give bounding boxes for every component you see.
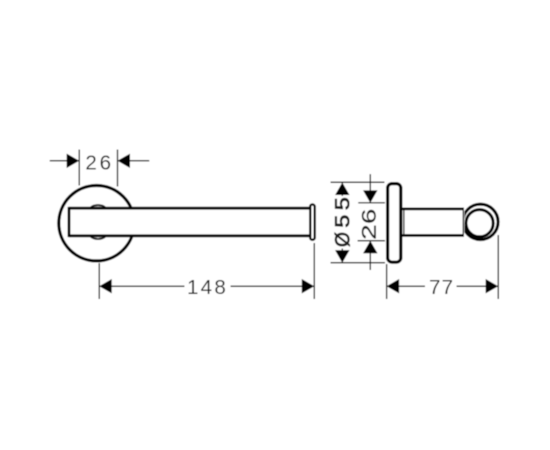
dim 77 line left segment — [387, 285, 425, 287]
dim 26 side label — [362, 210, 376, 239]
rod top line — [402, 208, 465, 211]
hook inner ring — [466, 210, 493, 237]
dim Ø55 bottom extension line — [331, 262, 386, 264]
dim 148 right extension line — [313, 243, 315, 299]
dim Ø55 top arrow — [335, 183, 349, 196]
rod fill — [403, 208, 465, 237]
dim Ø55 line upper segment — [341, 182, 343, 196]
dim 148 line right segment — [231, 285, 315, 287]
rosette circle (front view) — [59, 186, 134, 261]
svg-text:148: 148 — [187, 276, 228, 299]
dim 148 left extension line — [98, 263, 100, 299]
dim Ø55 label — [335, 198, 350, 246]
dim 26 side top arrow — [363, 190, 377, 203]
bar left end line — [68, 207, 71, 237]
dim Ø55 line lower segment — [341, 249, 343, 263]
dim 26 right tail — [118, 160, 150, 162]
rod joint line at ring — [462, 209, 464, 236]
bar end cap — [310, 204, 315, 239]
dim 26 side top tail — [369, 174, 371, 203]
hook outer ring — [463, 204, 498, 239]
dim 77 line right segment — [457, 285, 499, 287]
svg-text:77: 77 — [429, 276, 454, 299]
dim Ø55 top extension line — [331, 181, 385, 183]
dim 26 side bottom extension line — [358, 240, 385, 242]
side view plate — [388, 184, 401, 263]
bar top line — [69, 207, 310, 210]
bar bottom line — [69, 234, 310, 237]
hidden wall-post outline (gray, behind bar) — [90, 205, 106, 239]
bar body fill — [69, 207, 311, 237]
dim 77 left arrow — [387, 279, 400, 293]
dim 26 side top extension line — [358, 202, 385, 204]
rod joint line at plate — [403, 209, 405, 236]
dim 26 left arrow — [67, 154, 80, 168]
dim 148 right arrow — [302, 279, 315, 293]
dim 26 side bottom arrow — [363, 241, 377, 254]
dim 26 left extension line — [78, 150, 80, 186]
dim 77 left extension line — [386, 264, 388, 299]
dim 148 line left segment — [99, 285, 184, 287]
dim Ø55 bottom arrow — [335, 250, 349, 263]
dim 26 left tail — [50, 160, 79, 162]
dim 148 left arrow — [99, 279, 112, 293]
dim 77 right extension line — [497, 235, 499, 299]
dim 26 right extension line — [117, 150, 119, 187]
rod bottom line — [402, 234, 465, 237]
svg-text:26: 26 — [85, 151, 114, 174]
dim 77 right arrow — [486, 279, 499, 293]
dim 26 right arrow — [118, 154, 131, 168]
dim 26 side bottom tail — [369, 241, 371, 270]
